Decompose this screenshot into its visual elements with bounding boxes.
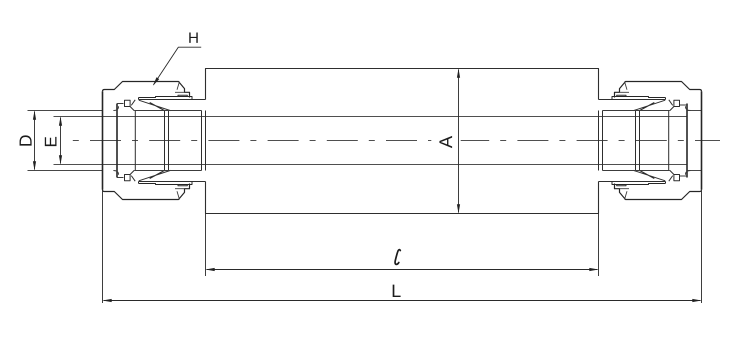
right ferrule seat verticals [636, 111, 640, 170]
label H [189, 32, 197, 42]
dimension l line [207, 269, 598, 271]
dimension l extension lines [206, 214, 599, 277]
right back ferrule chamfer [669, 107, 674, 175]
left flange raised lip [178, 95, 187, 186]
dimension E line [60, 118, 62, 164]
arrowhead A bottom [457, 204, 460, 213]
arrowhead l right [589, 268, 598, 271]
body neck ledge right (merges with flange bottom) [599, 100, 666, 182]
label l [395, 250, 400, 265]
dimension L line [104, 300, 701, 302]
right back ferrule [674, 100, 680, 106]
left back ferrule [125, 100, 131, 106]
left nut hex corner facet lines [175, 82, 185, 200]
left tube OD inside seat [134, 111, 201, 171]
left nut back face [102, 91, 104, 189]
left nut outline top [103, 82, 190, 98]
union body outline [206, 69, 599, 214]
centerline (right of A label) [461, 140, 720, 142]
arrowhead D top [33, 111, 36, 120]
arrowhead L left [103, 299, 112, 302]
left tube end face and body shoulder [202, 111, 206, 171]
right nut back face [701, 91, 703, 189]
right nut hex corner facet lines [620, 82, 630, 200]
arrowhead E bottom [59, 155, 62, 164]
arrowhead D bottom [33, 161, 36, 170]
label D [20, 135, 32, 145]
left nut outline bottom [103, 184, 190, 200]
left nut bore chamfer [113, 106, 118, 175]
right front ferrule taper [634, 100, 673, 111]
arrowhead A top [457, 69, 460, 78]
dimension A line [458, 70, 460, 213]
bore lines (dimension E extension lines, run through the fitting) [54, 117, 688, 165]
left front ferrule taper [131, 100, 170, 111]
tube stub OD lines (left, serve as dimension D extension lines) [28, 111, 103, 171]
centerline (left of A label) [69, 140, 431, 142]
left nut front flange [139, 97, 193, 100]
left back ferrule chamfer [130, 107, 135, 175]
right tube end face and body shoulder [599, 111, 603, 171]
arrowhead E top [59, 117, 62, 126]
H leader line [154, 47, 202, 85]
right nut bore OD segment [687, 111, 702, 171]
label A [439, 136, 452, 148]
right flange raised lip [617, 95, 626, 186]
label E [45, 137, 57, 146]
right tube OD inside seat [603, 111, 670, 171]
right nut front flange [612, 97, 666, 100]
label L [393, 285, 401, 297]
right nut bore chamfer [685, 106, 690, 175]
right nut internal bore edge [686, 104, 688, 178]
arrowhead l left [206, 268, 215, 271]
left ferrule seat verticals [165, 111, 169, 170]
left nut internal bore edge [116, 104, 118, 178]
body neck ledge left (merges with flange bottom) [139, 100, 206, 182]
dimension L extension lines [103, 190, 702, 303]
right nut outline top [615, 82, 702, 98]
right nut outline bottom [615, 184, 702, 200]
dimension D line [34, 112, 36, 170]
arrowhead H leader [153, 77, 159, 85]
arrowhead L right [692, 299, 701, 302]
